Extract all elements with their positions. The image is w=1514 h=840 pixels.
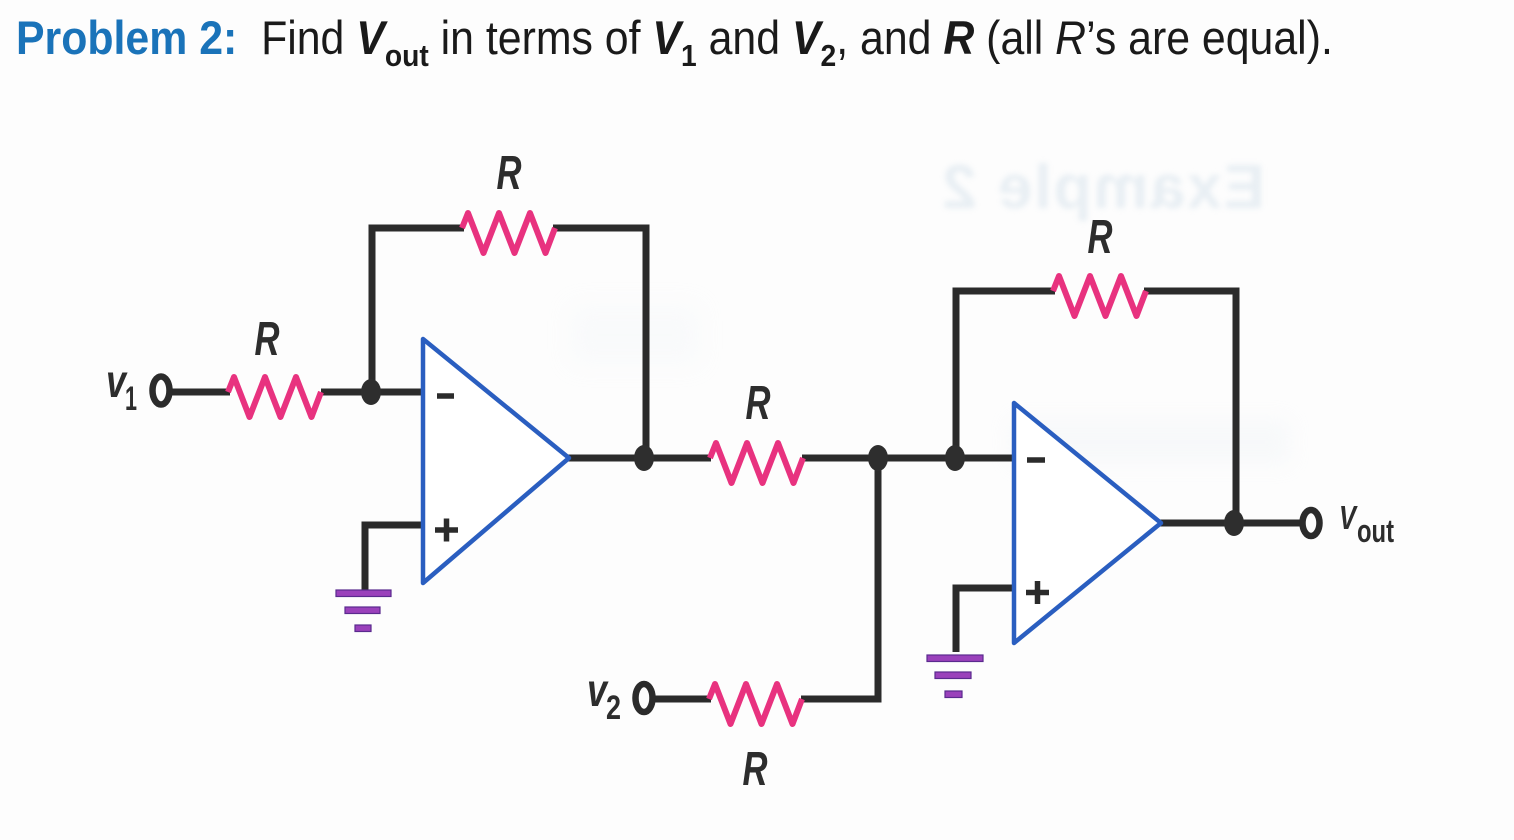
ghost bleed-through smudge 1 (1010, 420, 1290, 464)
wire ground-1 vertical (362, 522, 369, 591)
wire feedback-1 top right (553, 225, 646, 232)
resistor R1 (V1 input) (228, 377, 321, 417)
wire node to V2 branch vertical (875, 458, 882, 699)
resistor R3 (middle) (710, 443, 803, 483)
wire U1 output to R mid (568, 455, 711, 462)
wire V2 terminal to R (654, 696, 711, 703)
wire V2 branch bottom (801, 696, 882, 703)
node at U1 inverting input (361, 379, 381, 405)
node at U2 output (1224, 510, 1244, 536)
wire feedback-2 left vertical (953, 291, 960, 458)
U1 minus sign (437, 393, 454, 399)
ghost bleed-through smudge 2 (570, 305, 700, 365)
wire feedback-2 right vertical (1233, 288, 1240, 524)
svg-text:R: R (497, 147, 522, 200)
svg-text:R: R (743, 743, 768, 796)
ground 2 (927, 655, 983, 662)
node at U2 inverting input (945, 445, 965, 471)
svg-text:R: R (1088, 211, 1113, 264)
wire feedback-1 top left (369, 225, 465, 232)
wire feedback-1 left vertical (369, 228, 376, 392)
svg-text:1: 1 (125, 380, 137, 418)
U2 minus sign (1027, 457, 1045, 463)
wire U2 non-inverting input (956, 585, 1015, 592)
resistor R4 (feedback U2) (1053, 276, 1146, 316)
wire U1 non-inverting input (365, 522, 424, 529)
op-amp U1 (423, 339, 569, 583)
svg-text:R: R (746, 377, 771, 430)
svg-text:V: V (1339, 499, 1358, 536)
wire R to inverting input U1 (321, 389, 424, 396)
terminal Vout (1303, 510, 1320, 536)
wire feedback-2 top right (1144, 288, 1236, 295)
svg-text:out: out (1357, 513, 1394, 549)
wire V1 terminal to R (172, 389, 230, 396)
wire R mid to inverting input U2 (802, 455, 1015, 462)
resistor R5 (V2 input) (709, 684, 802, 724)
U2 plus sign (1026, 581, 1049, 604)
svg-text:R: R (255, 313, 280, 366)
wire feedback-2 top left (953, 288, 1056, 295)
wire U2 output to Vout terminal (1159, 520, 1303, 527)
svg-text:2: 2 (606, 689, 621, 727)
resistor R2 (feedback U1) (462, 213, 555, 253)
wire feedback-1 right vertical (643, 225, 650, 459)
node at U1 output (634, 445, 654, 471)
wire ground-2 vertical (953, 585, 960, 653)
terminal V1 (153, 377, 170, 405)
op-amp U2 (1014, 403, 1161, 643)
title (16, 14, 1333, 61)
U1 plus sign (435, 519, 458, 542)
terminal V2 (636, 684, 653, 712)
ghost bleed-through "Example" (mirrored, faint) (995, 152, 1265, 223)
ground 1 (336, 590, 391, 597)
node at V2 branch junction (868, 445, 888, 471)
